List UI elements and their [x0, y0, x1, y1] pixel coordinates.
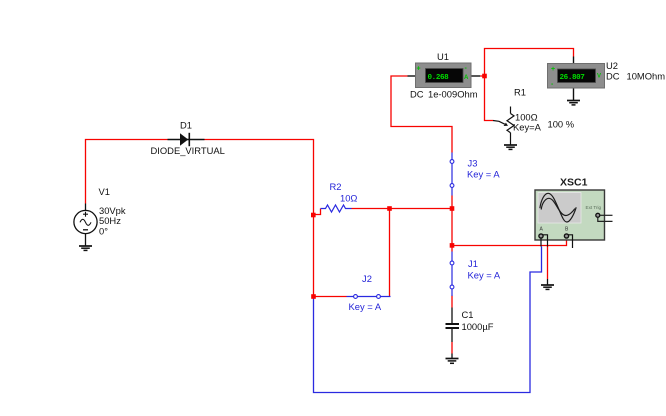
junction J column upper — [450, 206, 455, 211]
svg-text:+: + — [417, 66, 421, 73]
wire V1 top to D1 anode — [86, 140, 168, 204]
scope trace B — [541, 198, 575, 215]
wire junction to scope channel B — [452, 238, 567, 246]
wire J1 bottom to C1 — [451, 296, 453, 308]
ground below V1 — [79, 246, 92, 250]
svg-text:J2: J2 — [362, 273, 372, 284]
svg-text:50Hz: 50Hz — [99, 215, 121, 226]
svg-text:10MOhm: 10MOhm — [627, 71, 666, 82]
wire J column between J3 and J1 — [451, 196, 453, 252]
svg-text:C1: C1 — [462, 309, 474, 320]
junction J column lower — [450, 243, 455, 248]
switch J3 — [450, 153, 454, 196]
svg-text:DC: DC — [606, 71, 620, 82]
source V1 — [74, 204, 97, 247]
wire R2 right to J3/J1 column — [352, 208, 453, 210]
switch J2 — [347, 295, 391, 299]
svg-text:100 %: 100 % — [548, 119, 575, 130]
wire left column lower — [313, 215, 315, 297]
ground below R1 — [504, 145, 517, 149]
svg-text:Ext Trig: Ext Trig — [586, 205, 602, 210]
svg-text:U1: U1 — [437, 51, 449, 62]
svg-text:DIODE_VIRTUAL: DIODE_VIRTUAL — [151, 145, 225, 156]
wire J2 left — [314, 296, 347, 298]
voltmeter U2 — [548, 57, 605, 101]
svg-text:1e-009Ohm: 1e-009Ohm — [428, 89, 478, 100]
svg-text:Key=A: Key=A — [513, 122, 542, 133]
svg-text:V1: V1 — [99, 186, 110, 197]
wire bottom blue rail from J2 junction to scope channel A — [314, 247, 542, 393]
junction U1 right — [482, 74, 487, 79]
ground below U2 — [567, 101, 580, 105]
wire U1 right junction riser to U2 — [480, 49, 574, 77]
svg-text:Key = A: Key = A — [468, 270, 501, 281]
wire D1 cathode to left column top — [205, 140, 314, 215]
diode D1 — [168, 133, 205, 146]
svg-text:0.268: 0.268 — [428, 74, 450, 82]
switch J1 — [450, 252, 454, 297]
ground below C1 — [446, 354, 459, 364]
wire R2 right junction down to J2 right — [389, 209, 391, 297]
svg-text:U2: U2 — [606, 60, 618, 71]
junction R2 left column — [311, 213, 316, 218]
resistor R2 — [321, 205, 352, 212]
junction R2 right — [387, 206, 392, 211]
svg-text:XSC1: XSC1 — [560, 177, 588, 189]
scope trace A — [540, 193, 576, 222]
wire junction down to R1 wiper — [485, 76, 494, 121]
svg-text:R2: R2 — [330, 181, 342, 192]
svg-text:Key = A: Key = A — [467, 169, 500, 180]
svg-text:A: A — [464, 75, 469, 81]
svg-text:26.807: 26.807 — [560, 74, 586, 82]
potentiometer R1 — [493, 107, 514, 146]
ammeter U1 — [408, 63, 481, 88]
svg-text:DC: DC — [410, 89, 424, 100]
wire scope ground drop — [547, 246, 549, 280]
svg-text:+: + — [551, 66, 555, 73]
capacitor C1 — [446, 308, 460, 343]
svg-text:1000µF: 1000µF — [462, 321, 494, 332]
svg-text:10Ω: 10Ω — [340, 193, 357, 204]
svg-text:Key = A: Key = A — [349, 301, 382, 312]
wire jog to R2 left lead — [314, 209, 321, 215]
svg-text:0°: 0° — [99, 226, 108, 237]
svg-text:R1: R1 — [514, 87, 526, 98]
svg-text:J1: J1 — [468, 258, 478, 269]
oscilloscope XSC1 — [535, 190, 613, 248]
svg-text:D1: D1 — [180, 120, 192, 131]
ground below scope — [541, 279, 554, 289]
wire U1 left terminal to J3 top — [391, 76, 452, 153]
wire C1 bottom to ground — [451, 342, 453, 354]
svg-text:J3: J3 — [468, 158, 478, 169]
junction J2 left — [311, 294, 316, 299]
svg-text:V: V — [597, 74, 601, 80]
